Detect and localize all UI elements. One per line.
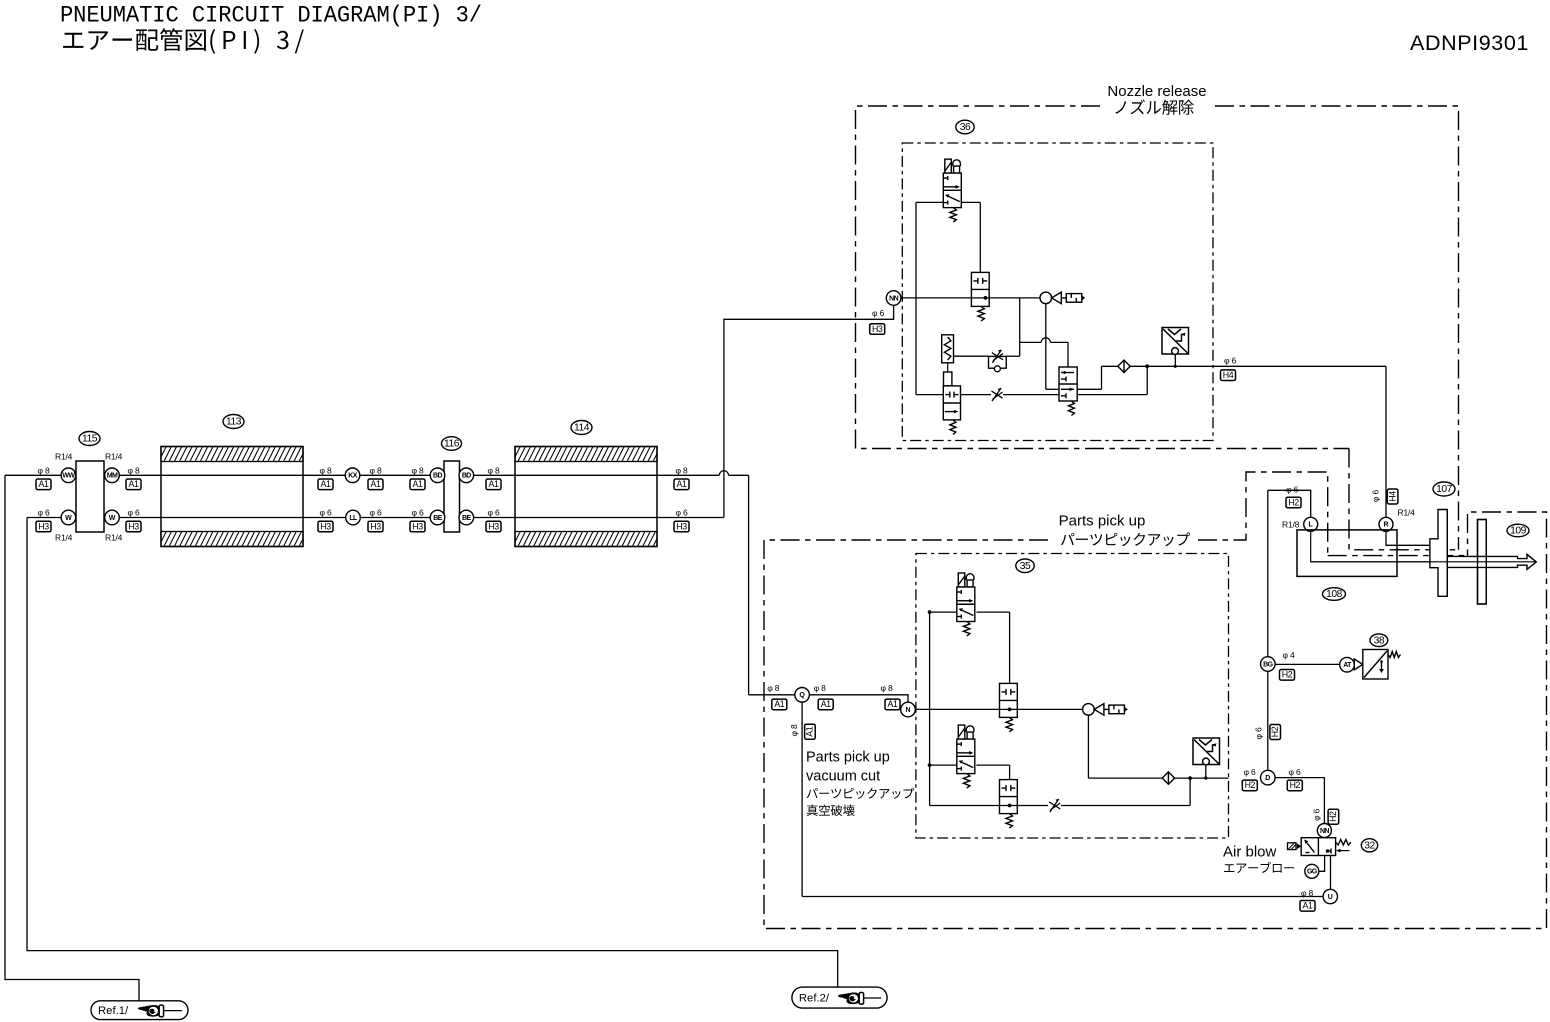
wire sol valve right port — [961, 201, 980, 203]
svg-text:U: U — [1328, 894, 1333, 901]
wire lower line to riser — [1003, 394, 1147, 396]
speed controller to branch — [1006, 355, 1020, 357]
svg-text:WW: WW — [62, 473, 75, 480]
tag A1 Q line — [818, 699, 833, 710]
wire into lower valve — [916, 394, 943, 396]
balloon 107 — [1433, 482, 1455, 496]
svg-text:φ 6: φ 6 — [370, 508, 382, 518]
svg-text:φ 8: φ 8 — [881, 683, 893, 693]
tag H3 — [486, 521, 501, 532]
svg-text:A1: A1 — [821, 699, 831, 709]
lower line through V3 (35) — [1000, 805, 1018, 807]
fitting block 115 — [76, 461, 104, 532]
vacuum line out of 35 — [1175, 777, 1229, 779]
internal passage from R — [1386, 531, 1447, 545]
svg-text:φ 8: φ 8 — [320, 466, 332, 476]
svg-text:H3: H3 — [412, 521, 423, 531]
svg-text:φ 6: φ 6 — [1254, 727, 1264, 739]
wire to valve V2 top — [979, 202, 981, 272]
port MM — [105, 468, 120, 483]
wire phi6 H2 to L — [1268, 490, 1311, 517]
pilot valve V3 (36) — [1059, 367, 1077, 401]
svg-text:R1/4: R1/4 — [55, 533, 73, 543]
outlet line phi6 H4 — [1130, 365, 1386, 367]
label Nozzle release (Japanese) — [1115, 100, 1194, 115]
svg-text:φ 6: φ 6 — [38, 508, 50, 518]
wire BG to AT — [1275, 663, 1340, 665]
balloon 36 — [956, 120, 974, 134]
balloon 109 — [1507, 524, 1529, 537]
tag H2 rotated BG-D — [1270, 725, 1281, 740]
svg-text:A1: A1 — [371, 479, 381, 489]
port U — [1323, 889, 1337, 903]
svg-text:109: 109 — [1510, 526, 1526, 537]
svg-text:H3: H3 — [872, 324, 883, 334]
svg-text:φ 8: φ 8 — [370, 466, 382, 476]
svg-text:H2: H2 — [1288, 497, 1299, 507]
balloon 38 — [1370, 634, 1388, 647]
valve 32 exhaust arrow — [1341, 850, 1350, 852]
svg-text:D: D — [1265, 775, 1270, 782]
silencer at valve 32 — [1288, 843, 1302, 850]
tag H3 — [36, 521, 51, 532]
svg-text:Ref.1/: Ref.1/ — [98, 1005, 129, 1017]
svg-text:φ 8: φ 8 — [38, 466, 50, 476]
wire phi6 BE to riser — [474, 517, 724, 519]
port W left — [61, 510, 76, 525]
svg-text:38: 38 — [1374, 635, 1385, 646]
tag A1 rotated — [805, 724, 816, 739]
riser to outlet line — [1146, 366, 1148, 394]
svg-text:φ 6: φ 6 — [1312, 808, 1322, 820]
riser BG to D — [1267, 671, 1269, 771]
tag H2 rotated at 32 — [1328, 809, 1339, 824]
svg-text:NN: NN — [1320, 828, 1329, 835]
wire phi6 to LL — [120, 517, 346, 519]
tag A1 — [486, 479, 501, 490]
svg-text:107: 107 — [1436, 484, 1452, 495]
svg-text:φ 6: φ 6 — [1286, 484, 1298, 494]
svg-text:113: 113 — [226, 417, 242, 428]
main line through V2 — [971, 297, 989, 299]
wire phi6 H4 down to R — [1385, 366, 1387, 517]
svg-text:φ 6: φ 6 — [320, 508, 332, 518]
enclosure: valve unit 35 (dashed) — [916, 554, 1229, 839]
check valve drop line — [1045, 304, 1047, 390]
balloon 114 — [571, 421, 592, 435]
svg-text:Q: Q — [799, 692, 805, 699]
solenoid valve SOL1 (36) — [943, 159, 961, 208]
svg-text:φ 8: φ 8 — [128, 466, 140, 476]
svg-text:A1: A1 — [774, 699, 784, 709]
wire Q to N — [810, 695, 908, 703]
lower line right part (35) — [1061, 805, 1190, 807]
fitting block 116 — [444, 461, 460, 532]
enclosure: Parts pick up subsystem (dash-dot) — [764, 512, 1547, 929]
nozzle plate 109 re-stroke — [1478, 520, 1487, 605]
tag A1 Q line — [885, 699, 900, 710]
svg-text:H4: H4 — [1223, 370, 1234, 380]
svg-text:R1/4: R1/4 — [105, 452, 123, 462]
port KX — [345, 468, 360, 483]
port W right — [105, 510, 120, 525]
svg-text:BD: BD — [433, 473, 442, 480]
tag H2 at L — [1286, 497, 1301, 508]
pressure switch tap — [1174, 354, 1176, 366]
svg-text:φ 6: φ 6 — [872, 308, 884, 318]
vacuum line to quick exhaust (35) — [1088, 777, 1162, 779]
svg-text:φ 8: φ 8 — [1301, 888, 1313, 898]
tag H4 outlet — [1221, 370, 1236, 381]
ejector spring — [1388, 652, 1401, 658]
svg-text:BE: BE — [433, 515, 442, 522]
wire SV2 left — [930, 764, 957, 766]
svg-text:Parts pick up: Parts pick up — [1059, 513, 1146, 530]
hose duct 114 — [508, 447, 666, 547]
svg-text:AT: AT — [1343, 662, 1352, 669]
quick exhaust valve (36) — [1118, 360, 1130, 372]
svg-text:φ 8: φ 8 — [676, 466, 688, 476]
wire pilot left vertical — [915, 202, 917, 394]
wire valve to GG — [1319, 856, 1325, 872]
svg-text:35: 35 — [1020, 561, 1031, 572]
wire down to V2 — [1009, 612, 1011, 683]
solenoid valve SOL2 (35) — [957, 573, 975, 622]
port BE left — [430, 510, 445, 525]
jump arc over check drop — [1041, 338, 1050, 343]
svg-text:φ 6: φ 6 — [412, 508, 424, 518]
check valve and silencer exhaust (36) — [1040, 292, 1085, 304]
tag A1 — [36, 479, 51, 490]
wire valve to U — [1330, 856, 1332, 890]
svg-text:A1: A1 — [39, 479, 49, 489]
wire SV1 left — [930, 611, 957, 613]
port R — [1379, 517, 1393, 531]
reference Ref.1 callout — [91, 1001, 188, 1020]
svg-text:L: L — [1309, 522, 1314, 529]
riser phi6 to NN — [724, 305, 894, 517]
main line N to V2 (35) — [915, 708, 1000, 710]
wire V2 to check valve — [989, 297, 1040, 299]
pilot operated valve V3 (35) — [1000, 780, 1018, 814]
lower line (35) — [930, 805, 1048, 807]
label parts pick up vacuum cut (Japanese line1) — [807, 788, 914, 799]
main line through V2 (35) — [1000, 708, 1018, 710]
port Q — [795, 688, 810, 703]
valve 32 spring — [1336, 840, 1351, 846]
wire phi8 KX to BD — [360, 474, 430, 476]
riser to BG — [1267, 490, 1269, 657]
svg-text:32: 32 — [1364, 841, 1375, 852]
pilot operated valve V2 (36) — [971, 272, 989, 306]
svg-text:GG: GG — [1307, 869, 1318, 876]
svg-text:Nozzle release: Nozzle release — [1107, 83, 1206, 100]
port BD left — [430, 468, 445, 483]
wire Q drop to U line — [801, 702, 803, 896]
svg-text:H2: H2 — [1282, 670, 1293, 680]
main bottom line through valve — [961, 394, 992, 396]
svg-text:H2: H2 — [1290, 780, 1301, 790]
tag A1 Q line — [772, 699, 787, 710]
balloon 113 — [223, 415, 244, 429]
wire D to air blow valve — [1274, 778, 1324, 824]
svg-text:BD: BD — [462, 473, 471, 480]
speed controller (throttle+check) (36) — [989, 356, 1007, 368]
nozzle plate 109 — [1478, 520, 1487, 605]
branch down to valve V3 top — [1067, 342, 1069, 367]
port BD right — [459, 468, 474, 483]
internal passage from L / nozzle axis — [1311, 531, 1536, 562]
wire sol valve left port — [916, 201, 943, 203]
svg-text:ADNPI9301: ADNPI9301 — [1410, 31, 1529, 55]
tag H2 at BG — [1280, 670, 1295, 681]
title line 2 (Japanese) — [63, 28, 304, 54]
branch horizontal y342 — [1020, 341, 1068, 343]
svg-text:φ 8: φ 8 — [814, 683, 826, 693]
svg-text:H2: H2 — [1270, 726, 1280, 737]
port BE right — [459, 510, 474, 525]
svg-text:R1/4: R1/4 — [55, 452, 73, 462]
wire V3 out — [1077, 388, 1101, 390]
tag H2 right of D — [1287, 780, 1302, 791]
label Air blow (Japanese) — [1224, 862, 1294, 873]
lower pilot valve (36) — [943, 386, 960, 420]
port BG — [1261, 657, 1276, 672]
svg-text:φ 6: φ 6 — [128, 508, 140, 518]
svg-text:φ 6: φ 6 — [1371, 490, 1381, 502]
label Parts pick up (Japanese) — [1061, 533, 1190, 547]
svg-text:A1: A1 — [805, 726, 815, 736]
svg-text:114: 114 — [574, 423, 590, 434]
svg-text:R1/8: R1/8 — [1282, 520, 1300, 530]
svg-text:W: W — [65, 515, 72, 522]
svg-text:H4: H4 — [1387, 491, 1397, 502]
throttle on lower line (35) — [1049, 799, 1060, 812]
svg-text:H3: H3 — [676, 521, 687, 531]
nozzle shaft and tip — [1447, 554, 1536, 569]
svg-text:H2: H2 — [1245, 780, 1256, 790]
port L — [1304, 517, 1318, 531]
pilot operated valve V2 (35) — [1000, 683, 1018, 717]
pressure switch PS2 (35) — [1193, 738, 1220, 765]
wire NN to V2 — [901, 297, 972, 299]
riser V3 to outlet — [1101, 366, 1103, 389]
outlet line to quick exhaust — [1102, 365, 1118, 367]
wire drop to Ref.1 — [5, 475, 139, 1001]
svg-text:MM: MM — [107, 473, 118, 480]
check valve and silencer exhaust (35) — [1083, 704, 1128, 716]
svg-text:H2: H2 — [1328, 811, 1338, 822]
pilot bus vertical (35) — [929, 612, 931, 805]
svg-text:φ 8: φ 8 — [412, 466, 424, 476]
nozzle holder block 108 — [1297, 530, 1397, 577]
wire SV2 right — [976, 764, 1009, 766]
port NN (air blow) — [1317, 824, 1331, 838]
svg-text:KX: KX — [348, 473, 357, 480]
balloon 116 — [442, 437, 462, 451]
svg-text:NN: NN — [889, 295, 898, 302]
wire phi8 A1 left segment — [5, 474, 61, 476]
svg-text:φ 6: φ 6 — [676, 508, 688, 518]
hose duct 113 — [154, 447, 312, 547]
wire U line to Q drop — [802, 896, 1323, 898]
wire phi8 BD to jump — [474, 474, 720, 476]
enclosure: valve unit 36 (dashed) — [902, 143, 1213, 441]
wire into V3 left — [1046, 388, 1059, 390]
svg-text:A1: A1 — [677, 479, 687, 489]
svg-text:115: 115 — [82, 434, 98, 445]
wire drop to Ref.2 — [27, 518, 838, 988]
svg-text:116: 116 — [444, 439, 460, 450]
pilot wire to speed controller — [954, 355, 989, 357]
nozzle plate 107 re-stroke — [1446, 510, 1448, 597]
svg-text:φ 8: φ 8 — [767, 683, 779, 693]
pressure switch PS1 (36) — [1162, 328, 1189, 355]
balloon 35 — [1016, 559, 1034, 573]
svg-text:36: 36 — [960, 122, 971, 133]
svg-text:vacuum cut: vacuum cut — [806, 769, 880, 785]
svg-text:H3: H3 — [38, 521, 49, 531]
svg-text:φ 6: φ 6 — [1244, 767, 1256, 777]
port D — [1261, 770, 1276, 785]
svg-text:PNEUMATIC CIRCUIT DIAGRAM(PI): PNEUMATIC CIRCUIT DIAGRAM(PI) 3/ — [60, 3, 482, 30]
solenoid valve SOL3 (35) — [957, 725, 975, 774]
svg-text:A1: A1 — [413, 479, 423, 489]
wire V2 to check (35) — [1017, 708, 1082, 710]
svg-text:φ 6: φ 6 — [488, 508, 500, 518]
air blow valve 32 — [1301, 838, 1335, 856]
svg-text:A1: A1 — [321, 479, 331, 489]
svg-text:R1/4: R1/4 — [1398, 508, 1416, 518]
tag H4 rotated at R — [1387, 489, 1398, 504]
check drop (35) — [1087, 715, 1089, 778]
svg-text:φ 4: φ 4 — [1283, 650, 1295, 660]
svg-text:φ 8: φ 8 — [488, 466, 500, 476]
port WW — [61, 468, 76, 483]
tag H3 — [410, 521, 425, 532]
wire phi6 H3 left segment — [27, 517, 61, 519]
port AT — [1340, 657, 1355, 672]
port GG — [1305, 864, 1319, 878]
wire phi8 to corner — [729, 474, 749, 476]
vacuum ejector 38 — [1354, 650, 1388, 680]
label vacuum cut (Japanese line2) — [807, 805, 855, 816]
tag H2 left of D — [1242, 780, 1257, 791]
wire phi8 A1 to hose 113 — [120, 474, 346, 476]
tag A1 — [674, 479, 689, 490]
branch vertical x1020 — [1019, 298, 1021, 356]
wire jump over NN riser — [719, 471, 728, 476]
wire SV1 right — [976, 611, 1009, 613]
tag A1 — [368, 479, 383, 490]
reference Ref.2 callout — [792, 987, 887, 1008]
branch down (35) — [1189, 778, 1191, 805]
port LL — [346, 510, 361, 525]
nozzle plate 107 — [1430, 510, 1447, 597]
svg-text:H3: H3 — [370, 521, 381, 531]
wire phi6 LL to BE — [361, 517, 431, 519]
tag H3 — [368, 521, 383, 532]
spring pilot actuator (36) — [942, 335, 954, 363]
tag H3 — [126, 521, 141, 532]
riser phi8 to Q line — [748, 475, 750, 695]
svg-text:H3: H3 — [128, 521, 139, 531]
tag H3 — [674, 521, 689, 532]
tag A1 — [318, 479, 333, 490]
throttle on lower line (36) — [992, 388, 1003, 401]
svg-text:A1: A1 — [129, 479, 139, 489]
svg-text:N: N — [905, 707, 910, 714]
svg-text:Air blow: Air blow — [1223, 844, 1277, 861]
svg-text:A1: A1 — [489, 479, 499, 489]
svg-text:A1: A1 — [888, 699, 898, 709]
svg-text:R1/4: R1/4 — [105, 533, 123, 543]
svg-text:Ref.2/: Ref.2/ — [799, 993, 830, 1005]
svg-text:H3: H3 — [320, 521, 331, 531]
svg-text:H3: H3 — [488, 521, 499, 531]
svg-text:W: W — [109, 515, 116, 522]
svg-text:φ 6: φ 6 — [1224, 356, 1236, 366]
actuator stem — [944, 372, 952, 386]
svg-text:BE: BE — [462, 515, 471, 522]
svg-text:R: R — [1383, 522, 1388, 529]
wire to Q — [749, 694, 795, 696]
tag A1 — [410, 479, 425, 490]
tag A1 at U — [1300, 901, 1315, 912]
wire down to V3 (35) — [1009, 765, 1011, 780]
svg-text:φ 6: φ 6 — [1289, 767, 1301, 777]
svg-text:108: 108 — [1326, 589, 1342, 600]
quick exhaust valve (35) — [1162, 772, 1174, 784]
svg-text:φ 8: φ 8 — [789, 724, 799, 736]
enclosure: Nozzle release subsystem (dash-dot) — [856, 106, 1350, 449]
balloon 115 — [79, 432, 100, 446]
balloon 32 — [1361, 839, 1377, 852]
balloon 108 — [1323, 588, 1346, 601]
tag H3 at NN — [870, 324, 885, 335]
port N — [901, 702, 916, 717]
nozzle axis line — [1311, 561, 1535, 563]
svg-text:Parts pick up: Parts pick up — [806, 750, 890, 766]
tag H3 — [318, 521, 333, 532]
port NN (nozzle release inlet) — [886, 291, 901, 306]
svg-text:A1: A1 — [1303, 901, 1313, 911]
svg-text:BG: BG — [1263, 661, 1273, 668]
tag A1 — [126, 479, 141, 490]
pressure switch tap (35) — [1205, 765, 1207, 778]
